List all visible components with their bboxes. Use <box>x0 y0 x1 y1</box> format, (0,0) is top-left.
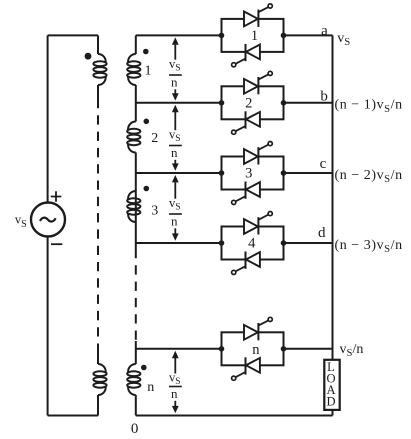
svg-text:n: n <box>171 214 178 229</box>
svg-text:2: 2 <box>151 131 158 146</box>
svg-text:0: 0 <box>131 421 139 437</box>
svg-text:c: c <box>320 156 327 172</box>
svg-text:n: n <box>252 342 260 358</box>
svg-text:b: b <box>320 89 328 105</box>
svg-text:a: a <box>321 23 328 39</box>
svg-text:(n − 3)vS/n: (n − 3)vS/n <box>335 238 403 255</box>
svg-text:d: d <box>318 225 326 241</box>
svg-text:1: 1 <box>145 64 152 79</box>
svg-text:1: 1 <box>251 28 258 44</box>
svg-text:4: 4 <box>248 236 256 252</box>
svg-text:n: n <box>171 75 178 90</box>
svg-text:n: n <box>171 386 178 401</box>
svg-text:n: n <box>171 145 178 160</box>
svg-text:n: n <box>147 380 154 395</box>
svg-text:(n − 2)vS/n: (n − 2)vS/n <box>335 168 403 185</box>
svg-text:3: 3 <box>151 204 158 219</box>
svg-text:(n − 1)vS/n: (n − 1)vS/n <box>335 98 403 115</box>
svg-text:2: 2 <box>245 95 252 111</box>
svg-text:3: 3 <box>245 166 252 182</box>
svg-text:D: D <box>326 395 335 409</box>
